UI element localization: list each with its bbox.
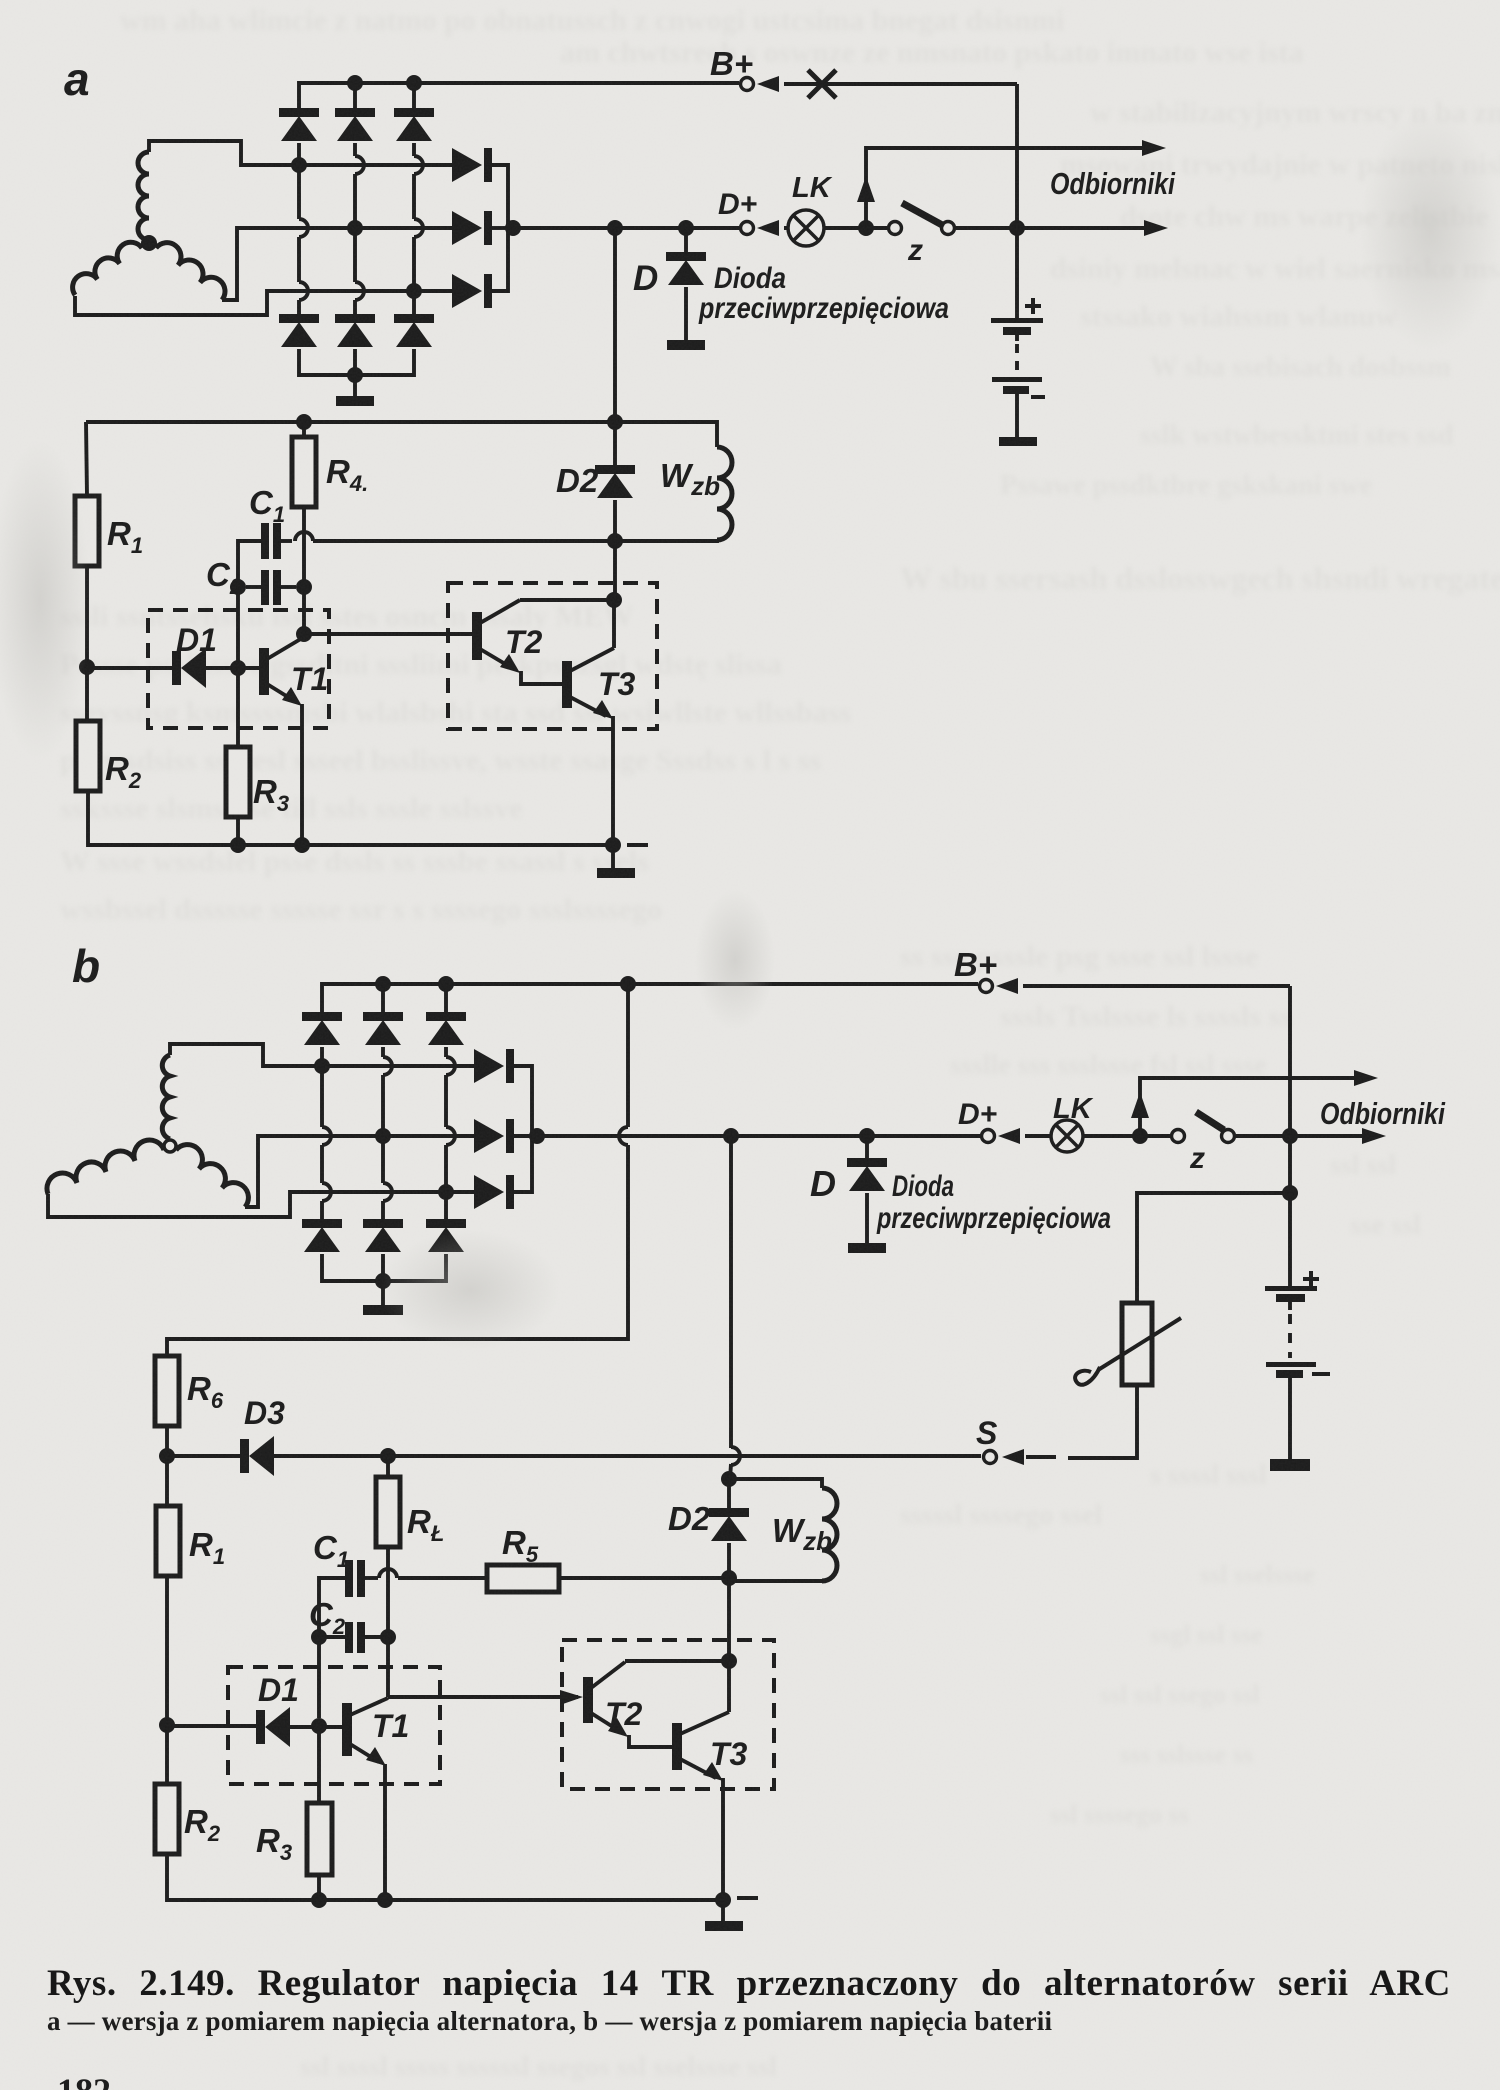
wire phase A lead (b) — [170, 1044, 315, 1066]
col2 jump over row1 (b) — [383, 1057, 392, 1075]
arrow into B+ (a) — [757, 76, 779, 92]
figure caption line 1 — [47, 1962, 1457, 2005]
wire R1 to node (b) — [165, 1576, 169, 1725]
B+ rail top (a) — [299, 83, 739, 108]
battery bottom plate (a) — [999, 437, 1037, 446]
figure caption line 2 — [47, 2006, 1052, 2037]
battery cell1 long plate (b) — [1265, 1286, 1317, 1291]
field diode row2 (a) — [452, 211, 492, 245]
regulator ground rail (a) — [88, 791, 613, 845]
zener diode D1 (b) — [256, 1707, 290, 1747]
phase B row (b) — [315, 1134, 474, 1138]
rheostat adjustment lever (b) — [1075, 1318, 1181, 1385]
junction negative rail (a) — [347, 367, 363, 383]
col3 jump over row2 (b) — [446, 1127, 455, 1145]
phase C row (b) — [315, 1190, 474, 1194]
diode D3 (b) — [240, 1436, 274, 1476]
junction D+ surge diode (a) — [678, 220, 694, 236]
battery cell2 long plate (b) — [1266, 1362, 1316, 1367]
rheostat (b) — [1122, 1303, 1152, 1385]
wire phase B lead (a) — [222, 228, 292, 300]
capacitor C1 (b) — [345, 1560, 365, 1597]
arrow receivers top (a) — [1142, 140, 1166, 156]
junction D2/Wzb bottom (a) — [607, 533, 623, 549]
wire C1 right (a) — [280, 539, 292, 543]
wire col3 to negative diode (a) — [412, 291, 416, 314]
resistor R3 (b) — [307, 1803, 332, 1875]
wire D3 to RL (b) — [274, 1454, 388, 1458]
negative diode col2 (a) — [335, 314, 375, 347]
junction top rail col3 (a) — [406, 75, 422, 91]
battery plus sign (b) — [1303, 1271, 1319, 1287]
ground bridge (b) — [363, 1305, 403, 1315]
junction Wzb top (b) — [721, 1471, 737, 1487]
junction D+ surge diode (b) — [859, 1128, 875, 1144]
battery stem (a) — [1015, 394, 1019, 437]
switch blade z (a) — [902, 203, 944, 226]
wire Wzb top (b) — [729, 1479, 822, 1488]
resistor R1 (a) — [75, 496, 99, 566]
wire col2 (b) — [381, 1201, 385, 1219]
C1 wire jump over RL column (b) — [379, 1569, 397, 1578]
phase C node (a) — [406, 283, 422, 299]
wire rheostat to S (b) — [1068, 1385, 1137, 1458]
wire R1 to node (a) — [85, 566, 89, 667]
arrowhead at T2 base (b) — [560, 1690, 583, 1705]
positive diode col1 (a) — [279, 108, 319, 141]
wire to R3 (a) — [236, 675, 240, 747]
wire col1 (b) — [320, 1201, 324, 1219]
transistor T3 (b) — [672, 1661, 729, 1781]
field winding Wzb coil (a) — [717, 447, 732, 540]
arrow receivers lower (b) — [1362, 1128, 1386, 1144]
junction bus/D+ (a) — [505, 220, 521, 236]
phase C node (b) — [438, 1184, 454, 1200]
page number 182 — [57, 2070, 111, 2090]
ground rail stub (a) — [627, 843, 648, 847]
wire R4 to C2 node (a) — [302, 507, 306, 580]
ground stem (b) — [721, 1900, 725, 1921]
battery stem (b) — [1288, 1378, 1292, 1459]
capacitor C2 (b) — [345, 1622, 365, 1653]
wire to T1 collector (a) — [302, 587, 306, 634]
junction bus/D+ (b) — [529, 1128, 545, 1144]
wire surge diode to ground (a) — [684, 287, 688, 340]
wire (b) — [386, 1456, 390, 1477]
wire to R3 (b) — [317, 1733, 321, 1803]
transistor T2 (a) — [472, 600, 614, 684]
terminal B+ (a) — [741, 78, 754, 91]
wire col3 (b) — [444, 1047, 448, 1057]
arrow up receivers (b) — [1131, 1092, 1149, 1118]
wire phase A lead (a) — [149, 141, 295, 165]
junction top rail to R6 (b) — [620, 976, 636, 992]
diode D2 (a) — [595, 465, 635, 498]
negative diode col2 (b) — [363, 1219, 403, 1252]
junction top rail col2 (b) — [375, 976, 391, 992]
wire (b) — [381, 984, 385, 1012]
capacitor C2 (a) — [261, 570, 281, 605]
switch contact left (a) — [889, 222, 902, 235]
positive diode col3 (a) — [394, 108, 434, 141]
surge diode D (a) — [666, 252, 706, 285]
stator winding right coil (a) — [156, 243, 225, 300]
junction negative rail (b) — [375, 1273, 391, 1289]
wire C2 left stub (a) — [246, 585, 261, 589]
col1 jump over row3 (b) — [322, 1183, 331, 1201]
wire C2 right stub (b) — [365, 1635, 388, 1639]
wire to T1 collector (b) — [386, 1637, 390, 1697]
paper grain texture — [0, 0, 1, 1]
wire C2 right stub (a) — [281, 585, 296, 589]
battery cell1 short plate (a) — [1003, 327, 1031, 335]
dashed enclosure T2/T3 (b) — [562, 1640, 774, 1789]
wire col3 (a) — [412, 174, 416, 219]
wire (b) — [727, 1543, 731, 1578]
col2 jump over row1 (a) — [355, 156, 364, 174]
wire T1 collector to T2 base (b) — [388, 1695, 578, 1699]
wire node to R2 (b) — [165, 1725, 169, 1784]
phase B row (a) — [292, 226, 452, 230]
jump over D+ line (b) — [619, 1127, 628, 1145]
resistor R4 (a) — [292, 437, 316, 507]
wire col1 (b) — [320, 1047, 324, 1066]
battery cell1 long plate (a) — [991, 318, 1043, 323]
wire col2 (b) — [381, 1047, 385, 1057]
wire col2 to rail (a) — [353, 83, 357, 108]
resistor R2 (b) — [155, 1784, 179, 1854]
terminal D+ (b) — [982, 1130, 995, 1143]
dashed enclosure T2/T3 (a) — [448, 583, 657, 729]
junction divider (b) — [159, 1717, 175, 1733]
base row wire (b) — [167, 1724, 257, 1728]
wire to ground (a) — [353, 375, 357, 396]
resistor R3 (a) — [226, 747, 250, 817]
field diode row1 (b) — [474, 1049, 514, 1083]
disconnect mark X (a) — [808, 70, 836, 98]
battery minus sign (a) — [1031, 395, 1045, 399]
wire RL down (b) — [386, 1547, 390, 1630]
charge lamp LK (b) — [1051, 1120, 1083, 1152]
wire node to R2 (a) — [85, 667, 89, 721]
junction T2 collector (a) — [606, 592, 622, 608]
negative diode col3 (a) — [394, 314, 434, 347]
field diode output bus (b) — [514, 1066, 532, 1192]
junction top rail col3 (b) — [438, 976, 454, 992]
D+ wire (b) — [532, 1134, 996, 1138]
battery cell2 long plate (a) — [992, 377, 1042, 382]
transistor T1 (b) — [342, 1698, 388, 1766]
junction D2/Wzb bottom (b) — [721, 1570, 737, 1586]
wire R3 to ground (a) — [236, 817, 240, 845]
negative rail (b) — [322, 1254, 446, 1281]
junction lamp/switch (a) — [858, 220, 874, 236]
transistor T3 (a) — [562, 600, 614, 719]
wire T3 emitter to ground (b) — [721, 1778, 725, 1900]
positive diode col1 (b) — [302, 1012, 342, 1045]
wire col3 to negative diode (b) — [444, 1192, 448, 1219]
battery dashed link (b) — [1288, 1314, 1292, 1358]
scan shading blotches — [0, 0, 1, 1]
wire R3 to ground (b) — [317, 1875, 321, 1900]
regulator top rail (a) — [86, 420, 717, 424]
battery stub (a) — [1015, 335, 1019, 341]
transistor T2 (b) — [583, 1661, 729, 1747]
ground surge diode (a) — [667, 340, 705, 350]
wire D+ to regulator rail (a) — [613, 228, 617, 422]
battery plus sign (a) — [1025, 298, 1041, 314]
stator winding left coil (a) — [73, 242, 142, 295]
junction sense branch (b) — [1282, 1185, 1298, 1201]
receivers branch upper (b) — [1140, 1078, 1370, 1136]
base row wire (a) — [87, 666, 173, 670]
surge diode D (b) — [847, 1158, 887, 1191]
wire to T2 collector node (a) — [613, 541, 617, 600]
col1 jump over row2 (b) — [322, 1127, 331, 1145]
col1 jump over row3 (a) — [299, 282, 308, 300]
wire Wzb bottom (b) — [729, 1579, 822, 1583]
ground stem (a) — [611, 845, 615, 868]
switch contact right (b) — [1222, 1130, 1235, 1143]
wire col2 (a) — [353, 174, 357, 222]
phase A node (a) — [291, 157, 307, 173]
arrow into D+ (a) — [757, 220, 779, 236]
junction D2 top (a) — [607, 414, 623, 430]
wire phase B lead (b) — [245, 1136, 315, 1207]
resistor R6 (b) — [155, 1356, 179, 1426]
wire stub to S arrow (b) — [1026, 1455, 1056, 1459]
phase B node (a) — [347, 220, 363, 236]
wire sense to rheostat (b) — [1137, 1193, 1290, 1303]
field winding Wzb coil (b) — [822, 1488, 837, 1581]
wire C2 to base row (a) — [236, 594, 240, 661]
C1 wire jump over R4 column (a) — [295, 532, 313, 541]
junction ground rail T1 (b) — [377, 1892, 393, 1908]
stator winding right coil (b) — [176, 1145, 248, 1207]
switch blade z (b) — [1196, 1112, 1224, 1130]
resistor RL (b) — [376, 1477, 400, 1547]
junction C2 left (b) — [311, 1629, 327, 1645]
dashed enclosure D1/T1 (b) — [228, 1667, 440, 1784]
wire node to switch (a) — [866, 226, 887, 230]
col3 jump over row1 (b) — [446, 1057, 455, 1075]
D2 column jump over sense row (b) — [731, 1447, 740, 1465]
junction D+ to regulator (b) — [723, 1128, 739, 1144]
junction ground (a) — [605, 837, 621, 853]
wire B+ rail down (b) — [626, 984, 630, 1127]
battery cell1 short plate (b) — [1276, 1294, 1305, 1302]
wire col3 (b) — [444, 1145, 448, 1192]
junction battery column (b) — [1282, 1128, 1298, 1144]
wire col3 (a) — [412, 237, 416, 285]
junction battery (a) — [1009, 220, 1025, 236]
field diode output bus (a) — [492, 165, 508, 291]
wire surge diode to ground (b) — [865, 1193, 869, 1243]
wire to R6 (b) — [167, 1145, 628, 1356]
positive diode col2 (a) — [335, 108, 375, 141]
B+ rail top (b) — [322, 984, 978, 1012]
sense row to S (b) — [388, 1454, 981, 1458]
junction C2 right (a) — [296, 579, 312, 595]
junction base/R3 (b) — [311, 1718, 327, 1734]
field diode row1 (a) — [452, 148, 492, 182]
wire switch to node (b) — [1236, 1134, 1380, 1138]
terminal S (b) — [984, 1451, 997, 1464]
battery dashed link (a) — [1015, 344, 1019, 374]
wire C1 row to R5 (b) — [398, 1576, 487, 1580]
wire col2 (a) — [353, 300, 357, 314]
wire rail to R1 (a) — [86, 422, 87, 496]
wire col1 (b) — [320, 1066, 324, 1127]
battery cell2 short plate (b) — [1276, 1370, 1303, 1378]
zener diode D1 (a) — [172, 648, 206, 688]
arrow into S (b) — [1002, 1449, 1024, 1465]
wire (b) — [381, 1254, 385, 1281]
phase A node (b) — [314, 1058, 330, 1074]
wire D1 to T1 base (b) — [290, 1725, 342, 1729]
wire to T2 collector node (b) — [727, 1578, 731, 1661]
wire col1 (a) — [297, 237, 301, 282]
wire (a) — [302, 422, 306, 437]
show-through texture from reverse page — [120, 4, 1064, 38]
arrow receivers top (b) — [1354, 1070, 1378, 1086]
wire C2 left stub (b) — [319, 1635, 345, 1639]
arrow into D+ (b) — [998, 1128, 1020, 1144]
wire col3 (b) — [444, 1075, 448, 1127]
diode D2 (b) — [709, 1508, 749, 1541]
D+ wire (a) — [508, 226, 739, 230]
capacitor C1 (a) — [261, 523, 281, 559]
wire phase C lead (b) — [48, 1192, 315, 1217]
wire (a) — [613, 422, 617, 465]
wire T1 emitter to ground (a) — [300, 704, 304, 845]
junction T2 collector (b) — [721, 1653, 737, 1669]
wire C1 right (b) — [365, 1576, 378, 1580]
battery feed column (a) — [1015, 84, 1019, 318]
transistor T1 (a) — [259, 637, 304, 706]
battery stub (b) — [1288, 1302, 1292, 1310]
phase B node (b) — [375, 1128, 391, 1144]
terminal B+ (b) — [980, 980, 993, 993]
phase C row (a) — [292, 289, 452, 293]
junction ground rail T1 (a) — [294, 837, 310, 853]
wire col2 (a) — [353, 234, 357, 282]
negative diode col1 (b) — [302, 1219, 342, 1252]
ground surge diode (b) — [848, 1243, 886, 1253]
wire col1 (a) — [297, 300, 301, 314]
wire col3 to rail (a) — [412, 83, 416, 108]
wire (a) — [613, 500, 617, 541]
junction ground rail R3 (b) — [311, 1892, 327, 1908]
wire col2 to neg rail (a) — [353, 349, 357, 375]
positive diode col2 (b) — [363, 1012, 403, 1045]
junction D+ to regulator (a) — [607, 220, 623, 236]
battery cell2 short plate (a) — [1003, 386, 1029, 394]
ground bridge (a) — [336, 396, 374, 406]
wire D1 to T1 base (a) — [206, 666, 259, 670]
wire to surge diode (b) — [865, 1136, 869, 1158]
wire D+ to lamp (a) — [784, 226, 870, 230]
wire phase C lead (a) — [75, 291, 292, 315]
junction R4 top (a) — [296, 414, 312, 430]
wire (b) — [727, 1479, 731, 1508]
wire (b) — [730, 1464, 731, 1479]
junction C2 left (a) — [230, 579, 246, 595]
junction ground rail R3 (a) — [230, 837, 246, 853]
phase A row (b) — [322, 1064, 474, 1068]
col1 jump over row2 (a) — [299, 219, 308, 237]
junction RL top (b) — [380, 1448, 396, 1464]
ground regulator (a) — [597, 868, 635, 878]
wire D+ to regulator (b) — [729, 1136, 733, 1448]
wire C1 row to D2 node (a) — [313, 539, 615, 543]
wire T3 emitter to ground (a) — [611, 716, 615, 845]
negative rail (a) — [299, 349, 414, 375]
arrow up receivers (a) — [857, 176, 875, 202]
wire col1 (a) — [297, 143, 301, 219]
wire T1 emitter to ground (b) — [383, 1764, 387, 1900]
wire Wzb bottom (a) — [615, 540, 717, 541]
wire Wzb top (a) — [615, 422, 717, 447]
battery minus sign (b) — [1312, 1372, 1330, 1376]
regulator ground rail (b) — [167, 1854, 723, 1900]
wire node to switch (b) — [1140, 1134, 1170, 1138]
wire col2 (b) — [381, 1142, 385, 1183]
wire C1 left down (b) — [319, 1578, 345, 1718]
junction divider (a) — [79, 659, 95, 675]
wire D+ to lamp (b) — [1025, 1134, 1140, 1138]
bus stub row2 (a) — [492, 226, 508, 230]
wire to D3 (b) — [167, 1454, 241, 1458]
wire col2 (a) — [353, 143, 357, 156]
col3 jump over row2 (a) — [414, 219, 423, 237]
receivers branch upper (a) — [866, 148, 1158, 228]
field diode row2 (b) — [474, 1119, 514, 1153]
junction C2 right (b) — [380, 1629, 396, 1645]
bus stub row2 (b) — [514, 1134, 532, 1138]
wire col3 (a) — [412, 143, 416, 156]
wire R5 to D2 node (b) — [559, 1576, 726, 1580]
field diode row3 (b) — [474, 1175, 514, 1209]
phase A row (a) — [299, 163, 452, 167]
battery feed column (b) — [1288, 986, 1292, 1290]
resistor R5 (b) — [487, 1565, 559, 1592]
positive diode col3 (b) — [426, 1012, 466, 1045]
switch contact left (b) — [1172, 1130, 1185, 1143]
dashed enclosure D1/T1 (a) — [148, 610, 329, 728]
switch contact right (a) — [942, 222, 955, 235]
ground rail stub (b) — [737, 1896, 758, 1900]
wire node to R1 (b) — [165, 1456, 169, 1506]
col3 jump over row1 (a) — [414, 156, 423, 174]
resistor R1 (b) — [156, 1506, 180, 1576]
wire C1 left down (a) — [238, 541, 262, 580]
stator winding phase coil vertical (a) — [138, 152, 149, 240]
junction T1 collector (a) — [296, 626, 312, 642]
negative diode col3 (b) — [426, 1219, 466, 1252]
wire switch to battery node (a) — [956, 226, 1160, 230]
wire to ground (b) — [381, 1281, 385, 1305]
terminal D+ (a) — [741, 222, 754, 235]
wire col1 (b) — [320, 1145, 324, 1183]
junction lamp/switch (b) — [1132, 1128, 1148, 1144]
ground regulator (b) — [705, 1921, 743, 1931]
wire (b) — [444, 984, 448, 1012]
junction base/R3 (a) — [230, 660, 246, 676]
negative diode col1 (a) — [279, 314, 319, 347]
field diode row3 (a) — [452, 274, 492, 308]
star point node (a) — [141, 235, 157, 251]
